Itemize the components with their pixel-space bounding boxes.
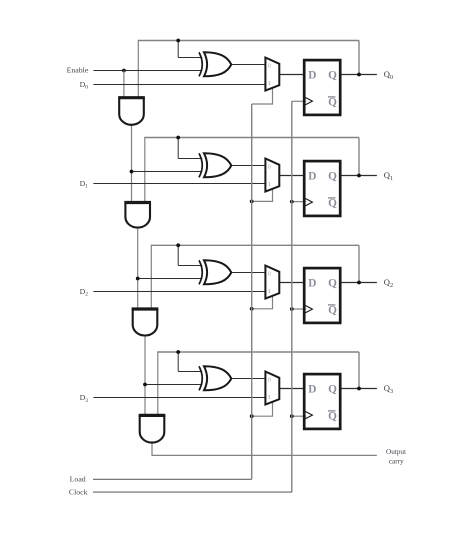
svg-text:D: D <box>308 384 316 396</box>
svg-text:0: 0 <box>268 62 271 69</box>
svg-text:0: 0 <box>268 270 271 277</box>
svg-text:D: D <box>308 278 316 290</box>
svg-text:carry: carry <box>389 457 404 465</box>
svg-text:Q: Q <box>328 304 337 316</box>
svg-text:0: 0 <box>268 376 271 383</box>
svg-text:Enable: Enable <box>67 66 89 75</box>
svg-text:D: D <box>308 70 316 82</box>
svg-text:Q: Q <box>328 410 337 422</box>
svg-text:Q: Q <box>328 384 337 396</box>
svg-text:Clock: Clock <box>69 488 88 497</box>
svg-text:Q: Q <box>328 278 337 290</box>
svg-text:1: 1 <box>268 288 271 295</box>
svg-text:Output: Output <box>386 448 406 456</box>
svg-text:1: 1 <box>268 181 271 188</box>
svg-text:Load: Load <box>70 475 86 484</box>
svg-text:Q: Q <box>328 171 337 183</box>
svg-text:Q: Q <box>328 197 337 209</box>
svg-text:Q: Q <box>328 70 337 82</box>
svg-text:D: D <box>308 171 316 183</box>
svg-text:1: 1 <box>268 394 271 401</box>
svg-text:Q: Q <box>328 96 337 108</box>
svg-text:0: 0 <box>268 163 271 170</box>
svg-text:1: 1 <box>268 80 271 87</box>
